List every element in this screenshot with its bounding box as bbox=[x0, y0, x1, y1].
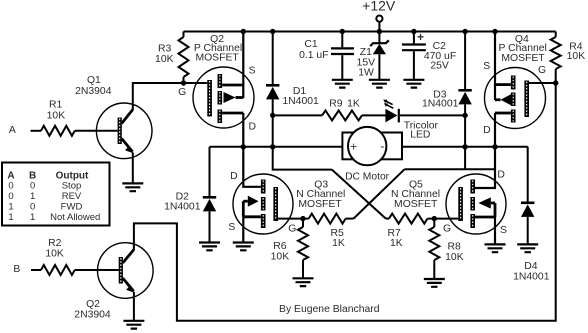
wire R1 to Q1 base bbox=[75, 130, 118, 132]
svg-text:S: S bbox=[228, 222, 235, 233]
svg-text:MOSFET: MOSFET bbox=[501, 53, 545, 64]
svg-text:1: 1 bbox=[8, 212, 13, 223]
node LED wire right bbox=[462, 113, 467, 118]
svg-text:R9: R9 bbox=[329, 99, 343, 110]
svg-text:+: + bbox=[350, 139, 357, 153]
resistor R3 bbox=[183, 32, 185, 38]
svg-text:10K: 10K bbox=[45, 248, 64, 259]
transistor Q2 2N3904 (bottom) bbox=[98, 243, 154, 299]
transistor Q1 2N3904 bbox=[96, 103, 152, 159]
wire Q4 gate node down right edge and bottom to Q2 collector bbox=[134, 83, 556, 321]
diode D3 1N4001 bbox=[464, 32, 466, 91]
ground D4 bbox=[517, 244, 538, 252]
mosfet Q4 contact bars bbox=[511, 76, 516, 90]
mosfet Q3 gate bar bbox=[273, 187, 278, 221]
wire right horizontal bbox=[405, 168, 496, 170]
wire diagonal left-to-right bbox=[332, 170, 386, 219]
svg-text:+12V: +12V bbox=[362, 0, 396, 14]
svg-text:1K: 1K bbox=[390, 238, 403, 249]
svg-text:A: A bbox=[9, 125, 16, 136]
mosfet Q2 P Channel circle bbox=[193, 67, 254, 128]
svg-text:0: 0 bbox=[30, 180, 35, 191]
svg-text:Stop: Stop bbox=[62, 180, 82, 191]
svg-text:-: - bbox=[380, 139, 384, 153]
wire Q2 source to rail bbox=[242, 32, 244, 99]
svg-text:MOSFET: MOSFET bbox=[394, 199, 438, 210]
node C1 on rail bbox=[340, 29, 345, 34]
wire Q2 drain down to Q3 drain bbox=[243, 113, 261, 187]
mosfet Q2 contact bars bbox=[218, 74, 223, 88]
resistor R9 1K bbox=[322, 110, 362, 120]
mosfet Q5 contact bars bbox=[470, 180, 475, 194]
LED tricolor bbox=[385, 109, 397, 123]
wire motor-right tap down bbox=[464, 147, 466, 170]
wire Q1 emitter bbox=[132, 153, 134, 184]
mosfet Q3 N Channel circle bbox=[233, 174, 293, 234]
svg-text:R3: R3 bbox=[158, 44, 172, 55]
svg-text:D: D bbox=[483, 125, 491, 136]
svg-text:MOSFET: MOSFET bbox=[195, 53, 239, 64]
wire motor right node bbox=[402, 146, 528, 148]
svg-text:By Eugene Blanchard: By Eugene Blanchard bbox=[279, 304, 380, 315]
node D1 motor wire bbox=[270, 144, 275, 149]
svg-text:1N4001: 1N4001 bbox=[513, 271, 550, 282]
capacitor C2 470uF bbox=[413, 32, 415, 44]
resistor R1 bbox=[41, 126, 75, 136]
svg-text:LED: LED bbox=[410, 130, 430, 141]
svg-text:1N4001: 1N4001 bbox=[422, 99, 459, 110]
ground R6 bbox=[293, 278, 314, 286]
wire diag to R7 bbox=[386, 218, 389, 220]
wire D1 to R9 bbox=[273, 114, 322, 116]
svg-text:1: 1 bbox=[8, 201, 13, 212]
wire Q2 bottom emitter bbox=[133, 292, 135, 321]
zener Z1 15V 1W bbox=[378, 32, 380, 44]
svg-text:S: S bbox=[249, 65, 256, 76]
mosfet Q5 gate bar bbox=[458, 187, 463, 221]
ground Q5 bbox=[485, 244, 506, 252]
mosfet Q4 gate bar bbox=[524, 81, 529, 118]
wire Q1 collector to R3/Q2 gate node bbox=[133, 83, 208, 110]
wire motor-left tap down bbox=[273, 147, 332, 170]
node Q2 source on rail bbox=[241, 29, 246, 34]
svg-text:G: G bbox=[443, 224, 451, 235]
svg-text:C1: C1 bbox=[304, 39, 318, 50]
svg-text:DC Motor: DC Motor bbox=[345, 172, 390, 183]
wire R2 to Q2 base bbox=[75, 269, 119, 271]
wire top +12V rail bbox=[184, 31, 556, 33]
svg-text:0.1 uF: 0.1 uF bbox=[299, 50, 328, 61]
svg-text:1N4001: 1N4001 bbox=[282, 96, 319, 107]
svg-text:0: 0 bbox=[30, 201, 35, 212]
resistor R2 bbox=[41, 265, 75, 275]
wire input A bbox=[31, 130, 42, 132]
wire Q3 source to ground bbox=[242, 217, 244, 243]
node C2 on rail bbox=[411, 29, 416, 34]
svg-text:0: 0 bbox=[8, 180, 13, 191]
mosfet Q2 drain bar line bbox=[222, 112, 243, 115]
resistor R5 1K bbox=[309, 214, 346, 224]
svg-text:1N4001: 1N4001 bbox=[164, 202, 201, 213]
wire diag to R5 bbox=[346, 218, 354, 220]
truth table A/B/Output bbox=[2, 163, 110, 226]
node Q4 drain motor wire bbox=[492, 144, 497, 149]
svg-text:+: + bbox=[417, 30, 424, 44]
node Q3 gate junction bbox=[300, 216, 305, 221]
wire Q4 drain down through motor node to Q5 drain bbox=[475, 113, 495, 188]
diode D4 1N4001 bbox=[527, 147, 529, 203]
wire Q4 source to rail bbox=[494, 32, 496, 101]
svg-text:10K: 10K bbox=[155, 54, 174, 65]
ground D2 bbox=[199, 243, 220, 251]
svg-text:10K: 10K bbox=[445, 252, 464, 263]
wire LED to D3 bbox=[400, 114, 465, 116]
svg-text:D: D bbox=[497, 170, 505, 181]
resistor R6 10K bbox=[302, 219, 304, 227]
svg-text:25V: 25V bbox=[430, 60, 449, 71]
svg-text:G: G bbox=[288, 224, 296, 235]
svg-text:0: 0 bbox=[8, 191, 13, 202]
svg-text:Q1: Q1 bbox=[87, 75, 101, 86]
wire R9 to LED bbox=[362, 114, 386, 116]
ground Q2 bottom emitter bbox=[123, 321, 144, 329]
svg-text:Z1: Z1 bbox=[360, 47, 372, 58]
mosfet Q4 drain bar line bbox=[495, 112, 511, 115]
svg-text:D: D bbox=[249, 122, 257, 133]
node Q5 gate junction bbox=[432, 216, 437, 221]
wire diagonal right-to-left bbox=[354, 169, 405, 218]
mosfet Q5 source structure bbox=[491, 202, 495, 205]
svg-text:REV: REV bbox=[62, 191, 82, 202]
ground Z1 bbox=[369, 80, 390, 88]
wire Q5 source to ground bbox=[494, 217, 496, 244]
mosfet Q4 source structure bbox=[495, 83, 511, 86]
mosfet Q3 source structure bbox=[243, 200, 248, 203]
resistor R7 1K bbox=[389, 214, 428, 224]
svg-text:10K: 10K bbox=[47, 111, 66, 122]
svg-text:Not Allowed: Not Allowed bbox=[50, 212, 100, 223]
svg-text:R1: R1 bbox=[49, 100, 63, 111]
svg-text:B: B bbox=[13, 264, 20, 275]
svg-text:G: G bbox=[178, 87, 186, 98]
svg-text:S: S bbox=[500, 225, 507, 236]
svg-text:1W: 1W bbox=[358, 67, 374, 78]
capacitor C1 0.1uF bbox=[341, 32, 343, 48]
svg-text:1: 1 bbox=[30, 191, 35, 202]
DC motor bbox=[342, 133, 402, 160]
svg-text:S: S bbox=[483, 61, 490, 72]
svg-text:R6: R6 bbox=[273, 241, 287, 252]
svg-text:FWD: FWD bbox=[61, 201, 83, 212]
wire R5 to Q3 gate bbox=[278, 218, 309, 220]
resistor R4 bbox=[555, 32, 557, 38]
mosfet Q5 N Channel circle bbox=[446, 174, 506, 234]
svg-text:2N3904: 2N3904 bbox=[75, 86, 112, 97]
svg-text:10K: 10K bbox=[567, 51, 586, 62]
mosfet Q2 source structure bbox=[222, 84, 243, 87]
node D1 on rail bbox=[270, 29, 275, 34]
wire motor left node bbox=[210, 146, 343, 148]
svg-text:1K: 1K bbox=[332, 238, 345, 249]
svg-text:1: 1 bbox=[30, 212, 35, 223]
svg-text:G: G bbox=[538, 65, 546, 76]
mosfet Q4 P Channel circle bbox=[485, 68, 546, 129]
svg-text:D: D bbox=[230, 171, 238, 182]
node R3-Q2 gate junction bbox=[181, 80, 186, 85]
mosfet Q2 gate bar bbox=[207, 80, 212, 117]
node D3 motor wire bbox=[462, 144, 467, 149]
svg-text:MOSFET: MOSFET bbox=[298, 199, 342, 210]
wire R7 to Q5 gate bbox=[428, 218, 459, 220]
ground R8 bbox=[424, 279, 445, 287]
ground Q3 bbox=[233, 243, 254, 251]
resistor R8 10K bbox=[433, 219, 435, 227]
node Q4 gate R4 junction bbox=[553, 80, 558, 85]
node Z1 on rail bbox=[377, 29, 382, 34]
mosfet Q3 contact bars bbox=[261, 180, 266, 194]
node D3 on rail bbox=[462, 29, 467, 34]
svg-text:R8: R8 bbox=[448, 242, 462, 253]
+12V supply terminal bbox=[376, 16, 382, 22]
diode D1 1N4001 bbox=[272, 32, 274, 86]
wire Q4 gate lead bbox=[529, 82, 556, 84]
ground Q1 emitter bbox=[122, 183, 143, 191]
diode D2 1N4001 bbox=[209, 147, 211, 198]
ground C1 bbox=[332, 80, 353, 88]
ground C2 bbox=[403, 80, 424, 88]
node Q2 drain motor wire bbox=[241, 144, 246, 149]
wire input B bbox=[31, 269, 41, 271]
node R9 wire left bbox=[270, 113, 275, 118]
svg-text:10K: 10K bbox=[271, 252, 290, 263]
svg-text:1K: 1K bbox=[347, 99, 360, 110]
node Q4 source on rail bbox=[492, 29, 497, 34]
svg-text:2N3904: 2N3904 bbox=[74, 309, 111, 320]
